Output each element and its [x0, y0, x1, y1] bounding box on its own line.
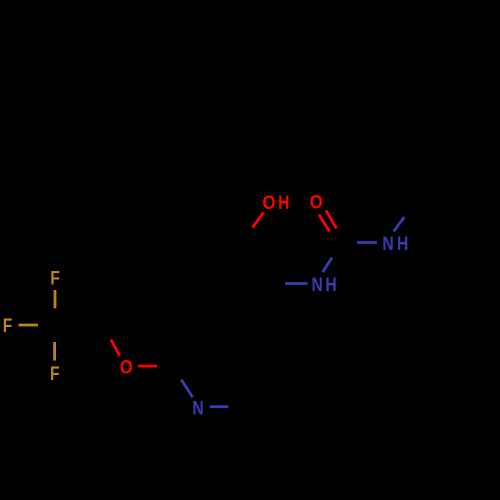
- bond C*-NH1 half: [285, 282, 308, 285]
- svg-text:N: N: [312, 273, 323, 295]
- svg-text:F: F: [3, 315, 13, 337]
- bond CH2-O ether half: [111, 340, 120, 356]
- bond C-F3 half: [53, 342, 56, 361]
- svg-text:O: O: [263, 192, 276, 214]
- carbonyl O label: [310, 191, 323, 213]
- svg-text:H: H: [397, 232, 408, 254]
- oxygen O ether label: [120, 356, 133, 378]
- amide NH2 label: [382, 232, 393, 254]
- svg-text:H: H: [325, 273, 336, 295]
- svg-text:O: O: [120, 356, 133, 378]
- svg-text:F: F: [50, 267, 60, 289]
- bond C-F2 half: [19, 324, 39, 327]
- hydroxyl OH label: [263, 192, 276, 214]
- bond NH1-C(=O) half: [323, 258, 332, 273]
- svg-text:N: N: [192, 397, 203, 419]
- bond O-C2 half: [138, 365, 157, 368]
- fluorine F2 label (left): [3, 315, 13, 337]
- bond NH2-C1' half: [394, 217, 405, 231]
- bond C=O inner line half: [319, 215, 330, 232]
- svg-text:F: F: [50, 362, 60, 384]
- bond CH2'-OH half: [253, 213, 264, 228]
- fluorine F1 label (top): [50, 267, 60, 289]
- fluorine F3 label (bottom): [50, 362, 60, 384]
- bond C=O main line half: [326, 210, 337, 228]
- bond C-F1 half: [54, 290, 57, 308]
- bond N1-C6 half: [210, 405, 229, 408]
- nitrogen N1 pyridine label: [192, 397, 203, 419]
- bond C(=O)-NH2 half: [357, 241, 377, 244]
- amide NH1 label: [312, 273, 323, 295]
- svg-text:H: H: [278, 191, 289, 213]
- svg-text:O: O: [310, 191, 323, 213]
- svg-text:N: N: [382, 232, 393, 254]
- bond C2=N1 half (pyridine): [181, 380, 193, 398]
